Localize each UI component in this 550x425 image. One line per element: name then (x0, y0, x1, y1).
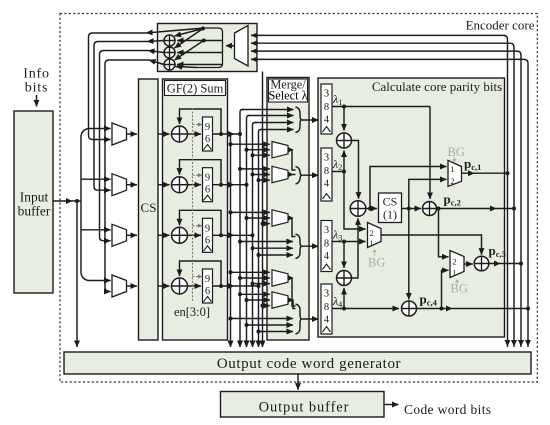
svg-text:3: 3 (324, 153, 329, 164)
register R1 96-bit (203, 117, 213, 151)
svg-text:8: 8 (324, 302, 329, 313)
wire BG2 select (dashed) (454, 157, 456, 160)
wire bus to generator arrow x230.5 (228, 341, 234, 348)
register L2 3/8/4 (321, 148, 332, 201)
svg-text:en[3:0]: en[3:0] (174, 305, 210, 319)
wire register R1 output to bus (213, 133, 241, 135)
wire tap to mux ME in1 (238, 292, 242, 296)
wire tap to mux MB in3 (257, 178, 261, 182)
wire register R2 output to bus (213, 184, 247, 186)
wire bus line b3 (253, 123, 257, 348)
wire feedback f4 wrap-around to mux M4 (149, 60, 164, 65)
wire tap to mux MB in1 (238, 167, 242, 171)
svg-text:1: 1 (369, 238, 373, 248)
svg-text:6: 6 (205, 185, 210, 196)
wire fanout to XOR D3 (175, 41, 204, 61)
wire bus line b5 from feedback block (262, 72, 264, 348)
wire XOR B2 to XOR C1 (352, 218, 359, 278)
register L4 3/8/4 (321, 284, 332, 334)
wire lambda2 (332, 171, 344, 173)
mux M2 input select (112, 174, 127, 196)
wire data input to mux M4 (88, 280, 111, 282)
register L1 3/8/4 (321, 84, 332, 134)
label Merge/Select (269, 79, 308, 102)
xor-gate D3 feedback (164, 59, 175, 70)
wire mux M4 to CS (127, 285, 138, 287)
wire lambda4 (332, 308, 399, 310)
wire XOR A1 to register (188, 133, 202, 135)
xor-gate A3 GF(2) sum (172, 227, 188, 243)
svg-text:Select λ: Select λ (268, 89, 307, 103)
wire tap merge group3 line2 (251, 246, 255, 250)
mux BG3 (pc3 select) (450, 251, 464, 278)
svg-text:Calculate core parity bits: Calculate core parity bits (372, 79, 502, 94)
block Output buffer (221, 392, 385, 418)
block CS (1) (379, 193, 402, 223)
svg-text:2: 2 (452, 257, 456, 267)
wire input distribution bus (brace) (81, 129, 88, 281)
wire lambda1 down to XOR B3 (429, 107, 431, 200)
wire code word bits output (384, 404, 399, 406)
wire feedback f2 wrap-around to mux M2 (147, 41, 164, 42)
svg-text:Input: Input (20, 190, 49, 205)
wire tap merge group4 line2 (245, 323, 249, 327)
svg-text:4: 4 (324, 115, 330, 126)
xor-gate A2 GF(2) sum (172, 177, 188, 193)
wire tap merge group3 line3 (257, 253, 261, 257)
svg-text:BG: BG (448, 145, 465, 159)
wire merge output to reg L2 (302, 174, 319, 176)
svg-text:4: 4 (324, 251, 330, 262)
wire CS to XOR A4 (158, 285, 170, 287)
mux MB merge select (272, 166, 288, 182)
wire pc2 branch to mux BG3 input 2 (439, 209, 449, 257)
wire register R4 output to bus (213, 285, 259, 287)
node feedback fanout F2 (202, 39, 206, 43)
wire lambda1 (332, 106, 430, 108)
wire mux MA output (288, 150, 296, 170)
wire mux MB output (288, 174, 296, 176)
wire mux M2 to CS (127, 184, 138, 186)
label GF(2) Sum (165, 81, 226, 96)
wire fanout to XOR D1 (175, 29, 204, 37)
wire tap to mux MD in2 (238, 276, 242, 280)
wire CS(1) to mux BG2 input 2 (409, 179, 447, 208)
wire CS to XOR A1 (158, 133, 170, 135)
mux MC merge select (272, 210, 288, 226)
wire tap to mux MD in1 (229, 270, 233, 274)
wire bus to generator arrow x252.5 (250, 341, 256, 348)
block CS (circular shift) (139, 79, 159, 340)
svg-text:BG: BG (451, 282, 468, 296)
mux MD merge select (272, 270, 288, 286)
register R2 96-bit (203, 168, 213, 202)
svg-text:4: 4 (324, 179, 330, 190)
wire enable en0 to register R1 (dashed) (193, 124, 201, 126)
block Output code word generator (64, 352, 531, 374)
wire tap to mux MB in2 (251, 173, 255, 177)
svg-text:Encoder core: Encoder core (466, 18, 535, 33)
wire mux M1 to CS (127, 133, 138, 135)
wire register R3 feedback loop (219, 233, 223, 237)
register L3 3/8/4 (321, 221, 332, 272)
mux MA merge select (272, 142, 288, 158)
svg-text:Info: Info (23, 67, 50, 82)
wire feedback f3 wrap-around to mux M3 (148, 51, 164, 53)
svg-text:1: 1 (452, 268, 456, 278)
wire input buffer output (53, 200, 81, 202)
wire merge output to reg L1 (302, 119, 319, 121)
wire tap to mux MA in3 (251, 153, 255, 157)
wire tap to mux MC in3 (261, 222, 265, 226)
wire XOR A4 to register (188, 285, 202, 287)
wire parity feedback line r3 (251, 51, 521, 347)
wire BG3 select (dashed) (456, 282, 458, 286)
wire parity feedback line r4 (251, 59, 528, 347)
wire bus to generator arrow x258.5 (256, 341, 262, 348)
wire merge group2 brace (296, 167, 303, 185)
svg-text:4: 4 (324, 315, 330, 326)
wire feedback f1 wrap-around to mux M1 (146, 28, 204, 33)
mux ME merge select (272, 292, 288, 308)
wire bracket to XOR D3 input (177, 64, 223, 66)
svg-text:1: 1 (450, 164, 454, 174)
wire CS to XOR A2 (158, 184, 170, 186)
wire pc3 output (489, 263, 521, 265)
encoder core dashed boundary (60, 14, 537, 383)
register R4 96-bit (203, 269, 213, 303)
wire lambda2 to mux BG1 (344, 172, 366, 230)
wire lambda1 to XOR B1 (343, 107, 345, 131)
wire bus to generator arrow x246.5 (244, 341, 250, 348)
node input junction (75, 199, 79, 203)
wire CS(1) output (402, 208, 422, 210)
wire tap merge group3 line1 (238, 240, 242, 244)
wire XOR A2 to register (188, 184, 202, 186)
xor-gate D2 feedback (164, 47, 175, 58)
wire XOR A3 to register (188, 234, 202, 236)
wire lambda2 up to XOR B1 (343, 151, 345, 172)
xor-gate B2 (lambda3+lambda4) (337, 271, 352, 286)
wire bus line b4 (259, 130, 263, 348)
svg-text:3: 3 (324, 89, 329, 100)
xor-gate B4 (pc4) (402, 301, 417, 316)
wire fanout to XOR D2 (175, 29, 204, 49)
svg-text:CS: CS (141, 200, 157, 215)
wire lambda4 up to XOR B2 (343, 288, 345, 309)
svg-text:2: 2 (369, 228, 373, 238)
svg-text:9: 9 (205, 122, 210, 133)
wire XOR B1 to XOR C1 (352, 141, 359, 199)
svg-text:6: 6 (205, 286, 210, 297)
wire mux ME output (288, 300, 296, 309)
wire register R2 feedback loop (219, 183, 223, 187)
wire feedback distribution bracket (197, 28, 223, 68)
mux feedback select (235, 26, 249, 67)
wire bracket to XOR D3 lower (176, 67, 198, 68)
block feedback XOR network (fill) (158, 24, 258, 72)
wire CS(1) down to XOR B4 (408, 209, 410, 300)
wire mux M3 to CS (127, 234, 138, 236)
xor-gate B3 (pc2) (423, 202, 437, 216)
svg-text:Output buffer: Output buffer (259, 400, 350, 416)
wire XOR C1 to CS(1) (366, 208, 377, 210)
svg-text:GF(2) Sum: GF(2) Sum (167, 82, 224, 96)
xor-gate C1 sum node (350, 201, 366, 217)
wire pc2 output (437, 208, 515, 210)
wire merge group3 brace (296, 234, 303, 259)
wire merge group1 brace (296, 107, 303, 133)
xor-gate A4 GF(2) sum (172, 278, 188, 294)
wire register R3 output to bus (213, 234, 253, 236)
wire mux BG1 output to XOR B5 (381, 235, 482, 255)
wire tap merge group4 line3 (257, 330, 261, 334)
svg-text:2: 2 (450, 176, 454, 186)
wire CS to XOR A3 (158, 234, 170, 236)
wire input to output generator (76, 201, 78, 347)
svg-text:(1): (1) (383, 208, 397, 222)
register R3 96-bit (203, 218, 213, 252)
svg-text:bits: bits (25, 81, 48, 96)
xor-gate B5 (pc3) (474, 256, 489, 271)
wire bus line b1 (240, 110, 244, 348)
svg-text:BG: BG (368, 256, 385, 270)
wire data input to mux M3 (81, 229, 111, 231)
wire bracket to XOR D2 input (177, 52, 223, 54)
wire XOR C1 to mux BG2 input 1 (370, 167, 447, 209)
wire BG1 select (dashed) (374, 252, 376, 256)
wire merge output to reg L4 (302, 318, 319, 320)
node feedback fanout F1 (201, 27, 205, 31)
svg-text:6: 6 (205, 134, 210, 145)
wire data input to mux M2 (81, 178, 111, 180)
wire pc4 output (417, 308, 529, 310)
wire tap to mux MC in1 (229, 210, 233, 214)
wire tap to mux MD in3 (251, 282, 255, 286)
mux BG1 (lambda select) (368, 223, 382, 248)
mux M1 input select (112, 123, 127, 145)
xor-gate B1 (lambda1+lambda2) (337, 133, 352, 148)
wire lambda3 (332, 241, 366, 243)
svg-text:6: 6 (205, 235, 210, 246)
wire tap to mux MA in1 (229, 142, 233, 146)
wire enable en3 to register R4 (dashed) (193, 276, 201, 278)
xor-gate A1 GF(2) sum (172, 126, 188, 142)
svg-text:3: 3 (324, 225, 329, 236)
svg-text:8: 8 (324, 166, 329, 177)
wire mux BG3 output to XOR B5 (464, 263, 473, 265)
xor-gate D1 feedback (164, 35, 175, 46)
mux M3 input select (112, 224, 127, 246)
svg-text:CS: CS (383, 195, 398, 209)
wire enable en2 to register R3 (dashed) (193, 225, 201, 227)
svg-text:8: 8 (324, 239, 329, 250)
wire tap to mux MC in2 (245, 216, 249, 220)
svg-text:Output code word generator: Output code word generator (217, 356, 401, 372)
wire enable en[3:0] distribution (dashed) (192, 108, 194, 301)
wire generator to output buffer (297, 374, 299, 390)
svg-text:9: 9 (205, 173, 210, 184)
block Input buffer (14, 111, 53, 293)
wire merge output to reg L3 (302, 245, 319, 247)
wire enable en1 to register R2 (dashed) (193, 174, 201, 176)
svg-text:8: 8 (324, 102, 329, 113)
svg-text:3: 3 (324, 289, 329, 300)
wire bus line b0 (230, 134, 232, 347)
block Calculate core parity bits (fill) (318, 78, 505, 337)
wire bus line b2 (247, 116, 251, 348)
wire tap to mux ME in2 (245, 298, 249, 302)
mux M4 input select (112, 275, 127, 297)
wire register R4 feedback loop (219, 284, 223, 288)
wire info bits arrow (36, 95, 38, 107)
wire register R1 feedback loop (219, 132, 223, 136)
wire merge group4 brace (296, 304, 303, 334)
svg-text:buffer: buffer (18, 204, 51, 219)
wire pc1 output (462, 172, 508, 174)
wire tap to mux MA in2 (245, 148, 249, 152)
wire feedback mux output (226, 45, 235, 47)
wire data input to mux M1 (88, 128, 111, 130)
svg-text:9: 9 (205, 274, 210, 285)
block GF(2) Sum (fill) (163, 79, 228, 340)
wire parity feedback line r2 (251, 43, 514, 347)
wire pc4 branch to mux BG3 input 1 (442, 270, 449, 308)
wire lambda3 down to XOR B2 (343, 242, 345, 269)
wire bus to generator arrow x240 (237, 341, 243, 348)
wire tap to mux ME in3 (261, 304, 265, 308)
mux BG2 (pc1 select) (448, 160, 462, 186)
block Merge/Select lambda (fill) (267, 78, 309, 341)
wire parity feedback line r1 (251, 35, 508, 347)
wire mux MC output (288, 218, 296, 237)
svg-text:9: 9 (205, 223, 210, 234)
svg-text:Code word bits: Code word bits (404, 402, 491, 417)
wire tap merge group4 line1 (229, 317, 233, 321)
wire mux MD output (288, 278, 296, 306)
wire bracket to XOR D1 input (177, 40, 223, 42)
